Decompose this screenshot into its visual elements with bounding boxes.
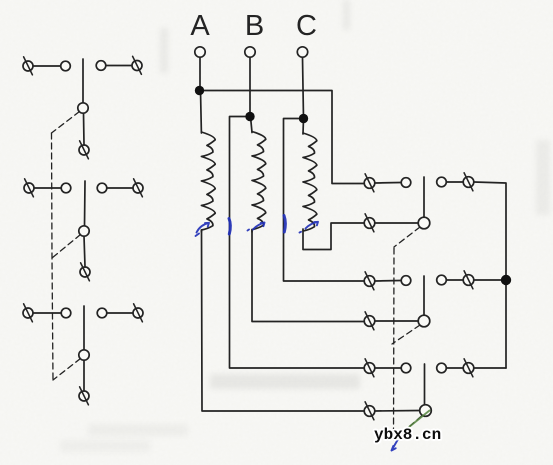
svg-text:C: C: [296, 10, 317, 42]
svg-text:A: A: [190, 10, 210, 42]
svg-text:B: B: [245, 10, 264, 42]
